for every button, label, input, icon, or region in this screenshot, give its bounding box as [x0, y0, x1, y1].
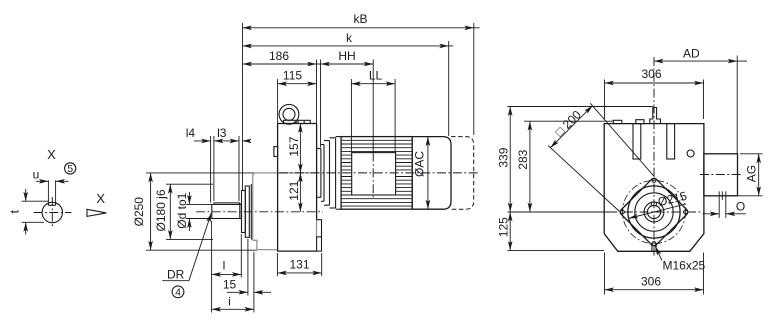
extension lines diam d: [186, 203, 212, 205]
svg-text:306: 306: [641, 67, 661, 81]
svg-text:LL: LL: [369, 68, 383, 82]
svg-text:131: 131: [289, 258, 309, 272]
extension line center left: [508, 211, 609, 213]
shaft end face: [239, 203, 241, 219]
svg-text:X: X: [96, 191, 105, 206]
svg-text:4: 4: [175, 287, 181, 299]
view centerline vertical: [653, 57, 655, 258]
shaft cross-section circle: [42, 202, 62, 222]
svg-text:339: 339: [497, 147, 511, 167]
extension line AD right: [736, 56, 738, 154]
svg-text:t: t: [8, 209, 22, 213]
dimension 306 top: [605, 82, 704, 84]
dimension l: [212, 273, 242, 275]
lifting lug: [650, 108, 661, 124]
dimension t lines: [22, 200, 50, 202]
output shaft: [212, 204, 242, 218]
keyway notch: [47, 203, 49, 206]
dimension diam d to1: [188, 192, 190, 204]
centerline vertical: [51, 197, 53, 229]
bolt hole left: [621, 210, 625, 214]
dimension 125: [509, 212, 511, 250]
motor fins: [341, 140, 412, 206]
dimension u lines: [47, 180, 49, 203]
svg-text:kB: kB: [353, 12, 367, 26]
extension line LL left: [350, 79, 352, 153]
svg-text:15: 15: [223, 278, 237, 292]
svg-text:115: 115: [283, 68, 302, 82]
dimension diam 180 j6: [169, 184, 171, 239]
svg-text:Ød to1: Ød to1: [175, 192, 189, 228]
extension line housing top left: [524, 120, 613, 122]
fan cowl (dashed option): [451, 137, 474, 210]
housing right step: [317, 220, 322, 237]
dimension kB: [243, 27, 474, 29]
balloon 5: [65, 163, 76, 174]
top tab middle: [636, 120, 644, 124]
balloon 4: [172, 286, 184, 298]
motor end cap: [412, 137, 451, 210]
output centerline: [196, 211, 323, 213]
slot left: [633, 124, 641, 159]
eyebolt: [279, 104, 299, 124]
svg-text:O: O: [736, 199, 745, 213]
extension line k right (motor cap): [448, 41, 450, 136]
M16 tap lines: [651, 245, 653, 251]
terminal box side: [704, 154, 738, 196]
bore keyway: [651, 202, 656, 205]
svg-text:125: 125: [497, 217, 511, 237]
bore circle: [647, 205, 660, 218]
svg-text:□ 200: □ 200: [552, 107, 584, 139]
svg-text:AD: AD: [683, 47, 700, 61]
flange circle inner: [635, 193, 673, 231]
adapter rings: [317, 137, 342, 210]
slot right: [667, 124, 675, 159]
housing foot: [317, 237, 322, 251]
extension line kB right (fan cowl): [473, 23, 475, 135]
dimension diam 250: [150, 173, 152, 250]
extension line housing left: [277, 79, 279, 124]
bell housing (grey): [253, 173, 317, 240]
svg-text:i: i: [228, 295, 231, 309]
extension lines l4 l3: [210, 136, 212, 203]
extension line housing right: [316, 60, 318, 124]
dimension 157: [299, 124, 301, 173]
svg-text:AG: AG: [745, 165, 759, 182]
centerline horizontal: [34, 212, 72, 214]
terminal box: [352, 153, 396, 195]
O feature ticks: [718, 191, 720, 218]
extension lines AG: [740, 153, 763, 155]
svg-text:HH: HH: [338, 49, 355, 63]
dimension 121: [299, 173, 301, 212]
label t (rotated): [8, 209, 22, 213]
key on shaft: [214, 203, 239, 205]
dimension 131: [277, 272, 321, 274]
bolt hole top: [652, 179, 656, 183]
extension lines diam 250: [146, 172, 256, 174]
svg-text:306: 306: [641, 274, 661, 288]
dimension O: [703, 213, 720, 215]
flange centerline horizontal: [608, 211, 701, 213]
housing body: [278, 124, 317, 252]
dimension 115: [278, 83, 317, 85]
svg-text:Ø180 j6: Ø180 j6: [154, 189, 168, 231]
housing outline: [604, 124, 704, 252]
svg-text:k: k: [346, 31, 353, 45]
box centerline: [700, 174, 742, 176]
dimension k: [243, 45, 449, 47]
input centerline: [279, 172, 480, 174]
dimension AG: [758, 154, 760, 196]
svg-text:283: 283: [516, 149, 530, 169]
extension line HH left (adapter): [320, 60, 322, 148]
svg-text:157: 157: [287, 136, 301, 156]
svg-text:186: 186: [269, 49, 289, 63]
svg-text:u: u: [33, 167, 40, 181]
extension line LL right: [394, 79, 396, 153]
top tab left: [613, 120, 622, 123]
dimension 339: [509, 107, 511, 213]
svg-text:DR: DR: [167, 268, 185, 282]
flange circle 215: [628, 186, 680, 238]
extension lines 306 top: [604, 80, 606, 120]
dimension 306 bottom: [605, 289, 704, 291]
dimension i: [212, 308, 254, 310]
svg-text:5: 5: [67, 163, 73, 175]
vent plug: [298, 120, 310, 123]
dimension 15: [227, 291, 248, 293]
extension lines bottom: [211, 221, 213, 313]
dimension AD: [654, 60, 737, 62]
label M16x25 with leader: [655, 246, 662, 260]
dimension 186: [243, 63, 317, 65]
small hole: [687, 150, 694, 157]
dimension square 200 (diagonal): [548, 145, 620, 211]
label diam 215 with leader: [629, 204, 686, 218]
bolt circle (dash-dot): [622, 180, 685, 243]
dimension diam AC: [427, 137, 429, 210]
svg-text:M16x25: M16x25: [663, 258, 706, 272]
svg-text:l3: l3: [217, 126, 227, 140]
extension lines diam 180: [166, 183, 213, 185]
motor body: [341, 137, 412, 210]
svg-text:X: X: [47, 147, 56, 162]
shaft circle: [644, 202, 664, 222]
retaining plate 2: [245, 186, 249, 237]
retaining plate 1: [242, 191, 246, 233]
dimension HH: [317, 63, 321, 65]
extension line bottom left: [508, 249, 605, 251]
bolt hole right: [684, 210, 688, 214]
view arrow X: [87, 209, 106, 216]
dimension LL: [351, 83, 395, 85]
extension line HH right / box center: [372, 60, 374, 153]
svg-text:l4: l4: [186, 126, 196, 140]
extension line left (shaft plate face): [242, 23, 244, 191]
bell face line: [250, 184, 252, 240]
housing left boss: [274, 147, 278, 157]
svg-text:Ø250: Ø250: [132, 197, 146, 227]
bolt hole bottom: [652, 242, 656, 246]
svg-text:121: 121: [287, 180, 301, 200]
dimension 283: [529, 121, 531, 212]
square flange (rotated): [619, 177, 689, 247]
extension lines 306 bottom: [604, 253, 606, 295]
svg-text:l: l: [223, 258, 226, 272]
extension line top (lug): [508, 106, 653, 108]
